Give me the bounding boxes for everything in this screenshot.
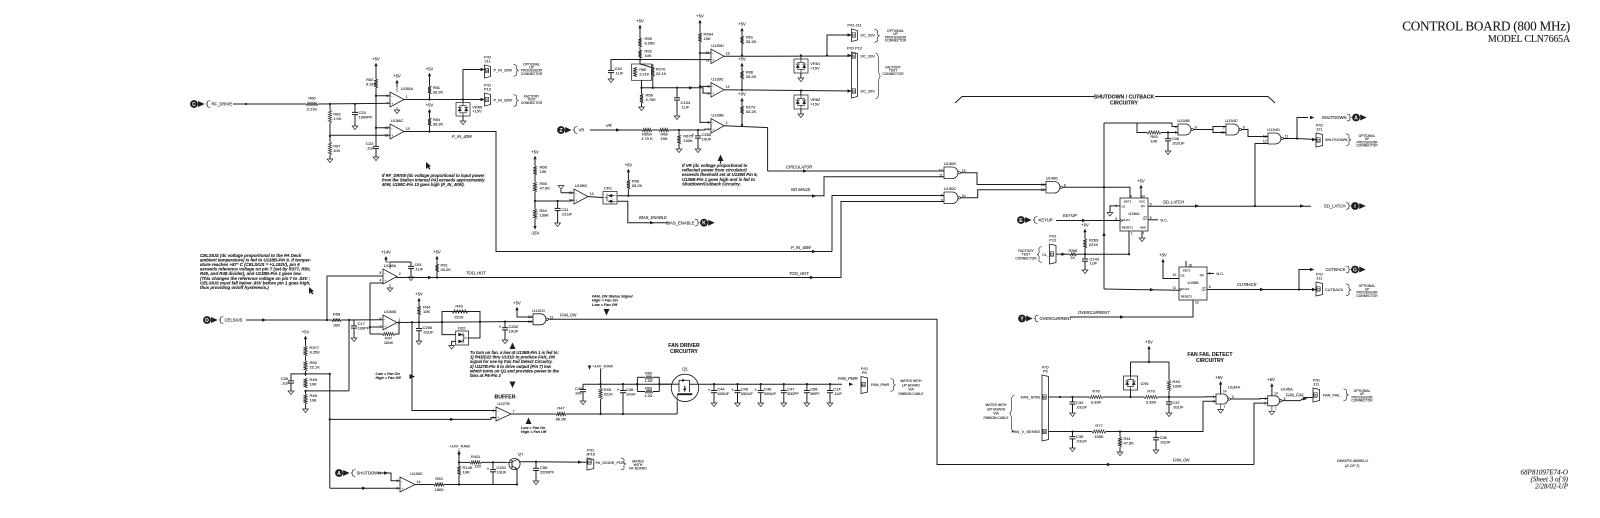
svg-text:4: 4 bbox=[1175, 125, 1177, 129]
svg-text:10: 10 bbox=[1188, 263, 1192, 267]
svg-text:GND: GND bbox=[1140, 226, 1146, 230]
op-amp U158C bbox=[390, 124, 404, 139]
connector P12 factory bbox=[852, 52, 858, 98]
wire R675 stem bbox=[678, 130, 680, 135]
gate U134A bbox=[1216, 394, 1228, 404]
svg-text:RESET1: RESET1 bbox=[1122, 226, 1134, 230]
resistor R50 22.1K bbox=[304, 361, 307, 371]
svg-text:1: 1 bbox=[726, 121, 728, 125]
svg-text:7: 7 bbox=[380, 325, 382, 329]
wire U127B out2 bbox=[566, 413, 583, 415]
capacitor C47 300PF bbox=[783, 384, 785, 390]
svg-text:221K: 221K bbox=[604, 391, 614, 396]
input flag KEYUP bbox=[1017, 216, 1025, 224]
wire pin6 wire U127B bbox=[330, 418, 496, 420]
resistor R54 130K bbox=[533, 209, 536, 219]
resistor R268 1K bbox=[1070, 253, 1077, 256]
svg-text:+5V: +5V bbox=[1145, 339, 1153, 344]
wire D2 tie bbox=[1163, 266, 1179, 279]
svg-text:P12: P12 bbox=[1049, 238, 1057, 243]
svg-text:+5V: +5V bbox=[636, 18, 644, 23]
svg-text:+5V: +5V bbox=[1215, 375, 1223, 380]
svg-text:+5V: +5V bbox=[1159, 252, 1167, 257]
svg-text:CONNECTOR: CONNECTOR bbox=[1015, 256, 1037, 260]
wire R47 left bbox=[370, 333, 382, 335]
svg-text:P_IN_20W: P_IN_20W bbox=[494, 98, 513, 102]
wire rail2 bbox=[639, 47, 641, 50]
op-amp U158D bbox=[574, 189, 588, 204]
svg-text:+5V: +5V bbox=[372, 56, 380, 61]
svg-text:U127B: U127B bbox=[497, 401, 510, 406]
svg-text:U130D: U130D bbox=[944, 161, 957, 166]
svg-text:CUTBACK: CUTBACK bbox=[1325, 288, 1344, 292]
gate U130C bbox=[944, 192, 958, 204]
resistor R53 1800 bbox=[434, 483, 444, 486]
wire fb vert bbox=[369, 283, 371, 334]
resistor R79 3.32K bbox=[1144, 395, 1158, 398]
svg-text:U130C: U130C bbox=[944, 186, 957, 191]
wire to J11 P_IN_20W bbox=[463, 70, 485, 100]
svg-text:E: E bbox=[1019, 218, 1023, 224]
svg-text:8.25K: 8.25K bbox=[310, 349, 321, 354]
resistor R52 10K bbox=[638, 50, 641, 58]
svg-text:7: 7 bbox=[1143, 231, 1145, 235]
capacitor C37 .01UF bbox=[1168, 397, 1170, 402]
wire FAN_V_SENSE wire bbox=[1049, 431, 1093, 433]
svg-text:33.2K: 33.2K bbox=[433, 90, 444, 95]
svg-text:33.2K: 33.2K bbox=[746, 74, 757, 79]
svg-text:R60: R60 bbox=[645, 372, 652, 376]
svg-text:2/28/02-UP: 2/28/02-UP bbox=[1535, 483, 1569, 491]
wire R61b stem bbox=[741, 35, 743, 37]
svg-text:+: + bbox=[712, 128, 714, 132]
capacitor C65 39PF bbox=[806, 384, 808, 390]
transistor Q2 bbox=[509, 458, 520, 469]
wire U139C out bbox=[724, 90, 852, 91]
ground bbox=[303, 409, 309, 413]
svg-text:.01UF: .01UF bbox=[561, 211, 572, 216]
wire U139B out bbox=[724, 126, 768, 171]
wire U158A out bbox=[404, 99, 487, 101]
svg-text:OVERCURRENT: OVERCURRENT bbox=[1040, 316, 1073, 321]
wire U158D out bbox=[588, 197, 603, 198]
wire R268 right bbox=[1077, 253, 1086, 255]
wire chain stem bbox=[534, 163, 536, 167]
capacitor C202 10UF bbox=[504, 322, 506, 328]
wire R51 stem bbox=[436, 263, 438, 265]
wire gate rise bbox=[676, 401, 678, 414]
svg-text:+: + bbox=[712, 58, 714, 62]
wire VR60 top bbox=[462, 100, 464, 103]
svg-text:SHUTDOWN: SHUTDOWN bbox=[1325, 138, 1348, 142]
wire SHUTDOWN in bbox=[378, 473, 400, 481]
svg-text:33.2K: 33.2K bbox=[441, 267, 452, 272]
feedback loop R43/D22 bbox=[442, 312, 480, 323]
svg-text:OVERCURRENT: OVERCURRENT bbox=[1078, 310, 1110, 315]
wire node B right bbox=[306, 390, 350, 392]
svg-text:RESET2: RESET2 bbox=[1181, 295, 1193, 299]
ground bbox=[1117, 452, 1123, 456]
svg-text:33.2K: 33.2K bbox=[632, 183, 643, 188]
svg-text:.01UF: .01UF bbox=[1076, 404, 1087, 409]
svg-text:FAN_ON: FAN_ON bbox=[1173, 457, 1189, 462]
svg-text:8.25K: 8.25K bbox=[645, 40, 656, 45]
svg-text:High = Fan Off: High = Fan Off bbox=[376, 376, 402, 380]
resistor R68 15K bbox=[659, 128, 669, 131]
wire rail to U134B bbox=[1104, 122, 1137, 124]
svg-text:CONNECTOR: CONNECTOR bbox=[1356, 144, 1378, 148]
flip-flop U136B bbox=[1179, 267, 1207, 300]
svg-text:1: 1 bbox=[399, 318, 401, 322]
capacitor C21 .01UF bbox=[557, 201, 559, 208]
svg-text:+5V: +5V bbox=[433, 249, 441, 254]
wire lower rail bbox=[459, 484, 517, 486]
svg-text:.01UF: .01UF bbox=[1076, 438, 1087, 443]
gate U134B bbox=[1178, 124, 1191, 135]
op-amp U158A bbox=[390, 92, 404, 107]
svg-text:4.75K: 4.75K bbox=[646, 97, 657, 102]
svg-text:8: 8 bbox=[1243, 126, 1245, 130]
U134B input loop bbox=[1137, 123, 1147, 133]
svg-text:330UF: 330UF bbox=[764, 391, 777, 396]
ground VR60 bbox=[460, 121, 466, 125]
svg-text:Shutdown/Cutback Circuitry.: Shutdown/Cutback Circuitry. bbox=[682, 181, 741, 186]
svg-text:P5: P5 bbox=[1043, 369, 1049, 374]
wire VR62 top bbox=[800, 91, 802, 96]
wire CIRCULATOR line bbox=[768, 170, 944, 172]
svg-text:+14V: +14V bbox=[381, 250, 391, 255]
resistor R47 100K bbox=[382, 332, 395, 335]
svg-text:14: 14 bbox=[417, 480, 421, 484]
resistor pair R60/R63 1.2ohm bbox=[637, 376, 645, 378]
wire to J11 CUTBACK bbox=[1299, 289, 1316, 291]
capacitor C38 .012UF bbox=[1167, 133, 1169, 139]
wire U138A +in bbox=[327, 276, 383, 320]
svg-text:7: 7 bbox=[1275, 407, 1277, 411]
op-amp U139D bbox=[711, 49, 724, 64]
wire CELSIUS line bbox=[246, 319, 332, 321]
wire R66 stem bbox=[641, 88, 643, 94]
ground U136A GND pin bbox=[1139, 238, 1145, 242]
svg-text:3.32K: 3.32K bbox=[366, 81, 377, 86]
wire +14V_RAW drop bbox=[600, 369, 602, 385]
svg-text:9: 9 bbox=[941, 199, 943, 203]
wire C48 bot bbox=[622, 399, 624, 414]
svg-text:CUTBACK: CUTBACK bbox=[1237, 282, 1257, 287]
svg-text:+5V: +5V bbox=[696, 13, 704, 18]
ground U158A bbox=[394, 110, 400, 114]
svg-text:CONNECTOR: CONNECTOR bbox=[521, 101, 543, 105]
svg-text:Low = Fan Off: Low = Fan Off bbox=[592, 303, 618, 307]
wire ref rail bbox=[329, 374, 331, 488]
svg-text:P_IN_40W: P_IN_40W bbox=[452, 134, 473, 139]
ground bbox=[676, 149, 682, 153]
svg-text:16: 16 bbox=[485, 69, 489, 73]
svg-text:10: 10 bbox=[385, 126, 389, 130]
svg-text:13: 13 bbox=[1041, 183, 1045, 187]
svg-text:P/O J11: P/O J11 bbox=[847, 23, 862, 28]
gate U131D bbox=[533, 314, 546, 325]
ground bbox=[351, 338, 357, 342]
wire VR seg bbox=[652, 129, 659, 131]
svg-text:KEYUP: KEYUP bbox=[1063, 213, 1077, 218]
svg-text:+5V: +5V bbox=[426, 103, 434, 108]
svg-text:U138B: U138B bbox=[384, 309, 397, 314]
svg-text:9: 9 bbox=[1223, 125, 1225, 129]
svg-text:.1UF: .1UF bbox=[281, 380, 290, 385]
ground bbox=[1153, 450, 1159, 454]
svg-text:CIRCUITRY: CIRCUITRY bbox=[670, 349, 699, 355]
diode pair D22 bbox=[456, 331, 469, 345]
svg-text:10K: 10K bbox=[704, 36, 711, 41]
svg-text:22.1K: 22.1K bbox=[656, 71, 667, 76]
pointer arrow up bbox=[718, 155, 724, 162]
svg-text:CONNECTOR: CONNECTOR bbox=[1351, 399, 1373, 403]
capacitor C61 .1UF bbox=[410, 262, 412, 266]
svg-text:A: A bbox=[1354, 115, 1358, 121]
resistor R272 33.2K bbox=[740, 106, 743, 114]
svg-text:+5V: +5V bbox=[1267, 377, 1275, 382]
svg-text:CONTROL BOARD (800 MHz): CONTROL BOARD (800 MHz) bbox=[1402, 19, 1570, 34]
wire to U158A pin7 bbox=[318, 102, 390, 105]
wire R270 top bbox=[640, 64, 653, 68]
wire sense seg bbox=[1106, 401, 1216, 431]
svg-text:10K: 10K bbox=[310, 381, 317, 386]
svg-text:12: 12 bbox=[1263, 139, 1267, 143]
resistor R377 8.25K bbox=[304, 346, 307, 356]
wire TOO_HOT line bbox=[397, 202, 945, 278]
wire FAN_ON to U145A bbox=[1254, 403, 1268, 464]
svg-text:1.5K: 1.5K bbox=[333, 116, 342, 121]
svg-text:R268: R268 bbox=[1069, 249, 1077, 253]
resistor R48 10K bbox=[304, 394, 307, 404]
svg-text:CELSIUS: CELSIUS bbox=[225, 318, 243, 323]
pointer arrow up (fan note) bbox=[510, 343, 516, 350]
svg-text:SHUTDOWN: SHUTDOWN bbox=[357, 471, 382, 476]
svg-text:FAN_V_SENSE: FAN_V_SENSE bbox=[1012, 429, 1041, 434]
wire R67 stem bbox=[329, 136, 331, 142]
svg-text:13: 13 bbox=[528, 320, 532, 324]
svg-text:+15V: +15V bbox=[810, 65, 820, 70]
svg-text:Q7: Q7 bbox=[518, 451, 524, 456]
svg-text:130K: 130K bbox=[540, 212, 550, 217]
svg-text:Z: Z bbox=[559, 128, 562, 134]
wire rail +5V bbox=[375, 70, 377, 80]
op-amp U139C bbox=[711, 83, 724, 98]
ground bbox=[798, 114, 804, 118]
svg-text:30: 30 bbox=[1043, 395, 1047, 399]
wire U138A -in bbox=[370, 282, 383, 284]
svg-text:11: 11 bbox=[939, 174, 943, 178]
svg-text:U158D: U158D bbox=[575, 183, 588, 188]
resistor R65 2.21K in box bbox=[632, 64, 652, 80]
wire U158C out P_IN_40W bbox=[404, 132, 832, 252]
wire CLK2 wire bbox=[1104, 289, 1179, 290]
svg-text:CONNECTOR: CONNECTOR bbox=[885, 39, 907, 43]
resistor R86 33.2K bbox=[740, 71, 743, 79]
wire R44 stem bbox=[418, 305, 420, 307]
svg-text:5: 5 bbox=[380, 271, 382, 275]
svg-text:CIRCUITRY: CIRCUITRY bbox=[1196, 358, 1225, 364]
wire R63 top bbox=[329, 104, 331, 110]
resistor R67 10K bbox=[328, 142, 331, 155]
svg-text:10K: 10K bbox=[645, 53, 652, 58]
svg-text:+: + bbox=[401, 487, 403, 491]
resistor R58 10K bbox=[332, 318, 341, 321]
capacitor C34 .01UF bbox=[1072, 397, 1074, 402]
power -15V bbox=[533, 226, 536, 230]
wire gate rail bbox=[583, 413, 677, 415]
wire box bottom bbox=[641, 80, 643, 88]
resistor R49 10K bbox=[304, 378, 307, 388]
gate U134C bbox=[1226, 124, 1239, 135]
wire fan rail bbox=[714, 383, 842, 385]
svg-text:U139B: U139B bbox=[711, 112, 724, 117]
svg-text:10UF: 10UF bbox=[497, 469, 507, 474]
svg-text:FAN_PWR: FAN_PWR bbox=[871, 383, 890, 387]
svg-text:102K: 102K bbox=[1173, 383, 1183, 388]
wire chain to -15V bbox=[534, 219, 536, 226]
svg-text:15K: 15K bbox=[540, 169, 547, 174]
connector J11 SHUTDOWN bbox=[1316, 133, 1323, 147]
svg-text:+5V: +5V bbox=[393, 73, 401, 78]
wire R51 bot bbox=[436, 272, 438, 278]
zener pair VR61 bbox=[794, 59, 808, 73]
svg-text:fans at P5-Pin 2: fans at P5-Pin 2 bbox=[470, 373, 502, 378]
wire R40 top bbox=[1168, 362, 1170, 380]
wire RF_DRIVE input bbox=[233, 103, 306, 105]
svg-text:221K: 221K bbox=[454, 315, 464, 320]
wire VR61 top bbox=[800, 56, 802, 60]
svg-text:15K: 15K bbox=[660, 136, 667, 141]
svg-text:100PF: 100PF bbox=[358, 325, 370, 330]
wire to J11 SHUTDOWN bbox=[1297, 139, 1316, 140]
op-amp U138B bbox=[383, 315, 397, 330]
wire SET2 stub bbox=[1185, 261, 1187, 267]
wire U130D out bbox=[961, 173, 1047, 185]
ground bbox=[327, 159, 333, 163]
svg-text:6: 6 bbox=[493, 416, 495, 420]
wire drain rail bbox=[583, 383, 672, 385]
svg-text:R63: R63 bbox=[645, 386, 652, 390]
arrow down FAN_ON status bbox=[604, 309, 610, 316]
capacitor C22 .1UF bbox=[375, 143, 377, 146]
svg-text:+: + bbox=[384, 325, 386, 329]
svg-text:11: 11 bbox=[1285, 135, 1289, 139]
svg-text:K: K bbox=[702, 221, 706, 227]
wire R63 to junction bbox=[330, 123, 390, 136]
wire U134C out bbox=[1242, 130, 1269, 137]
svg-text:+5V: +5V bbox=[738, 91, 746, 96]
svg-text:13: 13 bbox=[590, 192, 594, 196]
input flag OVERCURRENT bbox=[1018, 315, 1026, 323]
svg-text:KEYUP: KEYUP bbox=[1039, 218, 1053, 223]
svg-text:U131D: U131D bbox=[532, 308, 545, 313]
svg-text:14: 14 bbox=[1274, 391, 1278, 395]
wire R47 right bbox=[395, 323, 399, 334]
capacitor C263 10UF bbox=[697, 130, 699, 136]
svg-text:221K: 221K bbox=[1089, 242, 1099, 247]
svg-text:10K: 10K bbox=[423, 309, 430, 314]
svg-text:.1UF: .1UF bbox=[366, 145, 375, 150]
svg-text:CLK1: CLK1 bbox=[1122, 218, 1130, 222]
svg-text:4: 4 bbox=[853, 33, 855, 37]
wire pin6 stub bbox=[376, 95, 390, 97]
capacitor C23 1000PF bbox=[354, 104, 356, 112]
svg-text:31: 31 bbox=[1317, 287, 1321, 291]
wire R146 stems bbox=[458, 464, 460, 466]
wire BIAS_ENABLE branch bbox=[617, 201, 668, 222]
svg-text:CONNECTOR: CONNECTOR bbox=[1356, 294, 1378, 298]
svg-text:10UF: 10UF bbox=[509, 328, 519, 333]
connector J11 P_IN_20W bbox=[485, 65, 491, 78]
svg-text:12: 12 bbox=[1172, 273, 1176, 277]
resistor R264 10K bbox=[698, 33, 701, 42]
svg-text:1: 1 bbox=[1213, 395, 1215, 399]
svg-text:3.32K: 3.32K bbox=[1146, 399, 1157, 404]
svg-text:.012UF: .012UF bbox=[1172, 140, 1186, 145]
wire U138C ref bbox=[330, 487, 400, 489]
ground bbox=[639, 107, 645, 111]
svg-text:7: 7 bbox=[1224, 405, 1226, 409]
svg-text:1: 1 bbox=[1264, 397, 1266, 401]
ground bbox=[1082, 270, 1088, 274]
resistor R66 15K bbox=[533, 166, 536, 175]
svg-text:10K: 10K bbox=[333, 148, 340, 153]
svg-text:10K: 10K bbox=[310, 397, 317, 402]
svg-text:3: 3 bbox=[1232, 395, 1234, 399]
connector J11 FAN_FAIL bbox=[1313, 388, 1320, 402]
svg-text:12: 12 bbox=[1050, 252, 1054, 256]
svg-text:D2: D2 bbox=[1181, 273, 1185, 277]
resistor R60 2.21K bbox=[306, 102, 318, 105]
svg-text:12: 12 bbox=[528, 315, 532, 319]
svg-text:U134D: U134D bbox=[1267, 127, 1280, 132]
svg-text:J11: J11 bbox=[1313, 382, 1320, 387]
wire NO MAUS line bbox=[617, 177, 944, 196]
capacitor C142 1UF bbox=[1084, 254, 1086, 259]
svg-text:High = Fan Off: High = Fan Off bbox=[521, 430, 547, 434]
capacitor C14 .1UF bbox=[829, 384, 831, 390]
wire div seg2 bbox=[305, 371, 307, 376]
svg-text:VR: VR bbox=[606, 123, 612, 128]
wire R146 bot bbox=[458, 475, 460, 485]
svg-text:32: 32 bbox=[1317, 138, 1321, 142]
capacitor C35 .01UF bbox=[1072, 432, 1074, 437]
ground bbox=[416, 341, 422, 345]
input flag RF_DRIVE bbox=[190, 100, 198, 108]
connector P5 FAN_PWR bbox=[861, 377, 868, 394]
wire ff pwr split bbox=[1131, 361, 1170, 363]
svg-text:1800: 1800 bbox=[435, 487, 445, 492]
svg-text:4.75 K: 4.75 K bbox=[641, 136, 653, 141]
svg-text:-15V: -15V bbox=[531, 231, 540, 236]
resistor R55 47.5K bbox=[533, 182, 536, 192]
svg-text:Q2: Q2 bbox=[1202, 287, 1206, 291]
wire to U139C pin9 bbox=[642, 88, 712, 93]
capacitor C48 10UF bbox=[622, 384, 624, 390]
bracket shutdown/cutback bbox=[955, 97, 1094, 104]
svg-text:11: 11 bbox=[385, 134, 389, 138]
svg-text:R58: R58 bbox=[333, 311, 341, 316]
svg-text:U134C: U134C bbox=[1225, 118, 1238, 123]
svg-text:42: 42 bbox=[862, 383, 866, 387]
wire div stem bbox=[305, 343, 307, 347]
wire chain seg2 bbox=[534, 192, 536, 201]
wire KEYUP wire bbox=[1056, 220, 1120, 222]
svg-text:300PF: 300PF bbox=[787, 391, 799, 396]
resistor R146 10K bbox=[457, 466, 460, 475]
